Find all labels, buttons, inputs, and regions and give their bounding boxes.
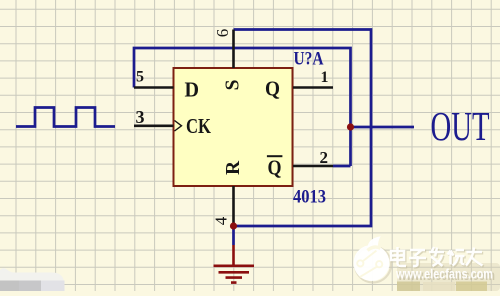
svg-text:Q: Q	[265, 76, 280, 100]
svg-text:OUT: OUT	[431, 103, 490, 149]
svg-text:2: 2	[320, 148, 329, 167]
svg-text:U?A: U?A	[294, 49, 324, 70]
svg-text:S: S	[223, 79, 244, 90]
svg-text:4013: 4013	[293, 187, 326, 208]
svg-text:D: D	[185, 77, 200, 101]
svg-text:5: 5	[136, 68, 144, 85]
svg-text:4: 4	[212, 216, 231, 225]
svg-text:R: R	[223, 160, 244, 175]
svg-text:1: 1	[321, 69, 329, 86]
svg-text:Q: Q	[268, 156, 282, 180]
svg-text:CK: CK	[186, 114, 212, 138]
svg-text:www.elecfans.com: www.elecfans.com	[395, 267, 493, 282]
svg-text:6: 6	[213, 29, 232, 38]
svg-text:3: 3	[136, 107, 145, 127]
